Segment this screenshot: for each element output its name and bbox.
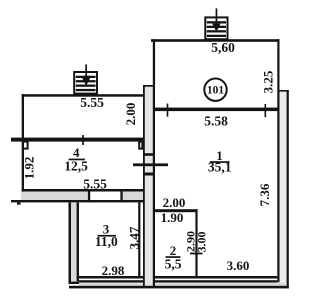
pier: door jamb right in room 4 [139, 142, 142, 149]
svg-text:5.55: 5.55 [80, 95, 104, 110]
stair symbol: top (above room 1 top wall) [205, 8, 227, 39]
wall: room 3 left exterior wall band [69, 202, 80, 284]
svg-text:11,0: 11,0 [95, 234, 118, 249]
stair symbol: left (above room 4 block boundary) [74, 64, 97, 93]
tick: left tick of 5.58 dimension [167, 104, 169, 117]
room 1 label [208, 148, 232, 175]
wall: room 2 right wall [195, 209, 197, 278]
room 4 label [64, 145, 88, 174]
wall: room 4 block top boundary line [22, 94, 143, 97]
tick: tick on room 4 top wall [82, 135, 84, 145]
svg-text:3.00: 3.00 [194, 232, 208, 253]
wall: thick interior wall of room 1 below loggia (5.58 line) [153, 108, 280, 112]
svg-text:5,5: 5,5 [165, 257, 182, 272]
wall: right hatched exterior wall band [280, 90, 289, 288]
wall: bottom second line [72, 280, 277, 282]
wall: bottom exterior wall band [79, 283, 287, 286]
wall: room 1 right thin wall [277, 39, 279, 282]
wall: room 1 left thin parapet wall upper [153, 39, 155, 86]
svg-text:3.25: 3.25 [261, 70, 276, 93]
svg-text:1.92: 1.92 [22, 157, 37, 180]
apartment number circle 101 [204, 79, 226, 101]
tick: tick on room 2 right wall (2.90/3.00 dims) [190, 253, 203, 255]
wall: left hatched party wall band between room 4 block and room 1 [143, 85, 155, 288]
svg-text:5,60: 5,60 [211, 40, 235, 55]
wall: room 4 top thick interior wall [11, 138, 143, 142]
room 3 label [95, 222, 118, 250]
wall: room 3 right thin wall [138, 202, 140, 277]
tick: long tick through party wall at 1.92 level [133, 163, 168, 166]
svg-text:3.60: 3.60 [227, 258, 250, 273]
wall: room 2 top thick wall [155, 209, 198, 212]
svg-text:1.90: 1.90 [161, 210, 184, 225]
wall: room 1 top exterior wall [151, 39, 280, 42]
window: lower cross bar on party wall [143, 173, 155, 176]
svg-text:12,5: 12,5 [64, 159, 88, 174]
wall: room 4 bottom exterior wall band with door opening [11, 189, 143, 202]
wall: room 4 bottom wall top line [22, 189, 143, 192]
svg-text:35,1: 35,1 [208, 160, 232, 175]
svg-text:2.98: 2.98 [102, 263, 125, 278]
svg-text:2.00: 2.00 [123, 103, 138, 126]
pier: door jamb left in room 4 [23, 142, 28, 149]
room 2 label [165, 243, 182, 272]
window: upper cross bar on party wall [143, 153, 155, 156]
tick: right tick of 5.58 dimension [265, 104, 267, 117]
svg-text:5.58: 5.58 [204, 114, 228, 129]
wall: bottom band black bottom edge [69, 286, 289, 289]
svg-text:2.00: 2.00 [163, 195, 186, 210]
wall: room 4 block left boundary line [22, 94, 24, 202]
svg-text:7.36: 7.36 [257, 183, 272, 206]
svg-text:5.55: 5.55 [83, 177, 107, 192]
svg-text:3.47: 3.47 [126, 226, 141, 249]
wall: party wall band lower part over bottom junction [143, 276, 155, 286]
svg-text:101: 101 [207, 85, 225, 97]
wall: bottom inner line of rooms 3,2,1 [79, 276, 277, 279]
wall: small stub below room 4 block corner [17, 202, 21, 204]
